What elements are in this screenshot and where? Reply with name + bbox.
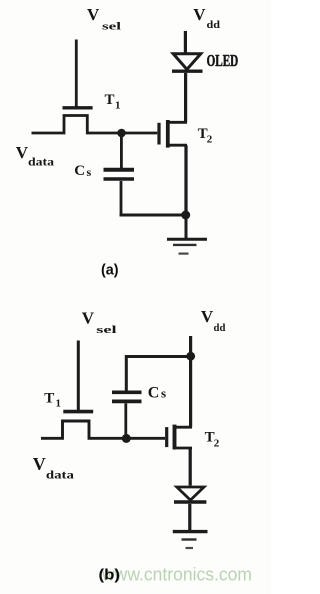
wire: capacitor bottom stub (b) — [124, 403, 127, 438]
svg-text:(b): (b) — [99, 567, 121, 584]
wire: node to ground (a) — [185, 215, 188, 238]
svg-text:C: C — [74, 163, 85, 179]
wire: V_sel gate line (b) — [77, 341, 80, 412]
wire: V_dd rail vertical (b) — [189, 336, 192, 427]
label OLED — [207, 51, 239, 70]
svg-text:s: s — [161, 386, 166, 401]
svg-text:www.cntronics.com: www.cntronics.com — [101, 565, 252, 585]
svg-text:dd: dd — [207, 19, 221, 31]
svg-text:V: V — [82, 308, 95, 327]
svg-text:V: V — [33, 454, 46, 474]
wire: V_dd stub to OLED anode (a) — [184, 31, 187, 53]
label Cs (a) — [74, 163, 91, 179]
ground (b) — [173, 532, 208, 548]
label V_sel (b) — [82, 308, 117, 336]
transistor T2 (a) channel bar — [166, 120, 170, 148]
wire: node to capacitor (a) — [120, 133, 123, 168]
wire: T2 (b) drain — [175, 426, 193, 429]
wire: T2 source down to bottom node (a) — [184, 145, 187, 215]
transistor T1 (b) channel with source/drain wires — [41, 421, 165, 438]
svg-text:2: 2 — [207, 134, 213, 146]
diode OLED (a) triangle — [173, 54, 201, 70]
svg-text:sel: sel — [96, 324, 116, 336]
wire: OLED cathode to T2 drain rail (a) — [184, 73, 187, 122]
capacitor Cs (a) bottom plate — [104, 177, 135, 181]
node: V_dd junction dot (b) — [186, 352, 195, 361]
svg-text:2: 2 — [214, 438, 220, 450]
label V_dd (b) — [201, 307, 226, 334]
svg-text:data: data — [46, 468, 74, 482]
transistor T1 (a) channel with source/drain wires — [32, 116, 158, 134]
label V_data (a) — [16, 143, 54, 169]
label T1 (b) — [44, 390, 61, 409]
node: bottom junction dot (a) — [181, 211, 190, 220]
wire: T2 (b) source — [175, 447, 193, 450]
node A junction dot (a) — [117, 129, 126, 138]
label V_sel (a) — [87, 5, 121, 33]
transistor T1 (a) gate bar — [63, 106, 93, 109]
svg-text:1: 1 — [115, 100, 121, 112]
label V_dd (a) — [193, 5, 220, 31]
capacitor Cs (b) bottom plate — [112, 400, 142, 404]
ground (a) — [167, 239, 207, 253]
capacitor Cs (b) top plate — [112, 390, 142, 394]
svg-text:data: data — [28, 157, 54, 169]
transistor T2 (b) gate bar — [165, 427, 168, 447]
transistor T2 (a) gate bar — [157, 123, 160, 145]
wire: T2 source down to diode (b) — [189, 448, 192, 486]
svg-text:V: V — [16, 143, 29, 162]
svg-text:V: V — [193, 5, 206, 24]
capacitor Cs (a) top plate — [104, 168, 135, 172]
svg-text:OLED: OLED — [207, 51, 239, 70]
diode (b) cathode bar — [174, 500, 206, 504]
svg-text:s: s — [87, 165, 92, 179]
label V_data (b) — [33, 454, 74, 482]
svg-text:V: V — [201, 307, 214, 326]
svg-text:1: 1 — [56, 398, 62, 410]
wire: capacitor to bottom rail (a) — [120, 181, 123, 216]
svg-text:T: T — [105, 92, 115, 108]
transistor T2 (b) channel bar — [173, 425, 177, 450]
label Cs (b) — [148, 385, 166, 402]
wire: T2 (a) drain — [168, 121, 187, 124]
transistor T1 (b) gate bar — [63, 410, 93, 414]
svg-text:C: C — [148, 385, 160, 402]
diode OLED (a) cathode bar — [172, 69, 203, 72]
wire: V_sel gate line (a) — [75, 40, 78, 108]
wire: T2 (a) source — [168, 144, 187, 147]
label T1 (a) — [105, 92, 121, 112]
wire: bottom rail (a) — [120, 214, 186, 217]
svg-text:V: V — [87, 5, 100, 24]
label T2 (b) — [205, 430, 220, 450]
svg-text:T: T — [44, 390, 54, 406]
label T2 (a) — [198, 126, 213, 146]
node B junction dot (b) — [122, 434, 131, 443]
wire: capacitor top to V_dd rail (b) — [126, 357, 190, 391]
diode (b) triangle — [177, 487, 204, 500]
svg-text:sel: sel — [102, 21, 121, 33]
svg-text:dd: dd — [214, 322, 226, 334]
wire: diode to ground (b) — [188, 504, 191, 530]
svg-text:(a): (a) — [101, 261, 119, 278]
